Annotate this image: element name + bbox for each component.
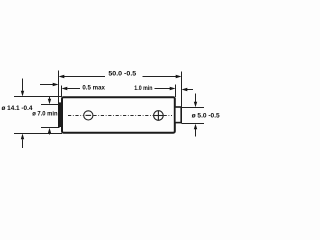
extension line: body bottom (dia 14.1)	[14, 133, 62, 135]
svg-text:ø 7.0 min: ø 7.0 min	[32, 111, 57, 118]
label 1.0 min	[134, 85, 152, 92]
svg-text:50.0 -0.5: 50.0 -0.5	[108, 70, 136, 77]
label dia 14.1 -0.4	[2, 105, 33, 112]
extension line: body top (dia 14.1)	[14, 96, 62, 98]
dimension dia 7.0 min arrows	[48, 97, 51, 135]
centerline (dash-dot axis)	[68, 115, 172, 117]
extension line: body right face (x=175.4)	[175, 85, 177, 98]
label dia 7.0 min	[32, 111, 57, 118]
label 50.0 -0.5	[108, 70, 136, 77]
extension line: tip top (dia 5.0)	[182, 107, 205, 109]
dimension dia 14.1 -0.4 arrows	[21, 79, 24, 149]
extension line: tip right face (x=181.3)	[181, 72, 183, 108]
dimension 0.5 max (contact protrusion)	[40, 83, 80, 90]
extension line: contact bottom (dia 7.0)	[41, 127, 60, 129]
extension line: tip bottom (dia 5.0)	[182, 123, 205, 125]
extension line: left overall-length datum (x=59)	[58, 71, 60, 104]
negative contact strip (left flat terminal)	[58, 103, 62, 127]
battery body (cell can)	[62, 97, 175, 132]
svg-text:1.0 min: 1.0 min	[134, 85, 152, 92]
dimension dia 5.0 -0.5 arrows	[194, 94, 197, 137]
svg-text:ø 14.1 -0.4: ø 14.1 -0.4	[2, 105, 33, 112]
label 0.5 max	[82, 85, 105, 92]
label dia 5.0 -0.5	[192, 113, 220, 120]
extension line: body left face (x=62.2)	[61, 86, 63, 98]
dimension 50.0 -0.5 (overall length)	[59, 75, 182, 78]
svg-text:ø 5.0 -0.5: ø 5.0 -0.5	[192, 113, 220, 120]
positive tip (pip)	[175, 107, 181, 123]
extension line: contact top (dia 7.0)	[41, 104, 59, 106]
svg-text:0.5 max: 0.5 max	[82, 85, 105, 92]
plus symbol (positive pole mark)	[154, 111, 164, 121]
minus symbol (negative pole mark)	[84, 111, 93, 120]
dimension 1.0 min (tip protrusion)	[155, 87, 194, 91]
